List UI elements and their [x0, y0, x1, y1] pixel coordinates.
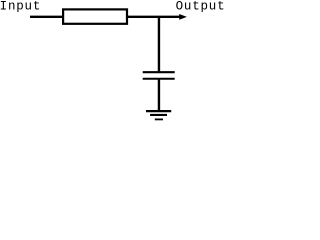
svg-text:Input: Input: [0, 0, 41, 14]
capacitor C1 bottom plate: [143, 78, 175, 80]
node output arrow head: [179, 14, 187, 20]
wire resistor to output arrow: [128, 16, 181, 18]
wire junction vertical down to capacitor: [158, 16, 160, 72]
capacitor C1 top plate: [143, 71, 175, 73]
ground bar 2: [150, 114, 167, 116]
ground bar 1: [146, 110, 171, 112]
wire capacitor to ground: [158, 79, 160, 111]
resistor R1: [63, 9, 127, 23]
wire input to resistor: [30, 16, 63, 18]
ground bar 3: [155, 118, 163, 120]
svg-text:Output: Output: [176, 0, 224, 14]
